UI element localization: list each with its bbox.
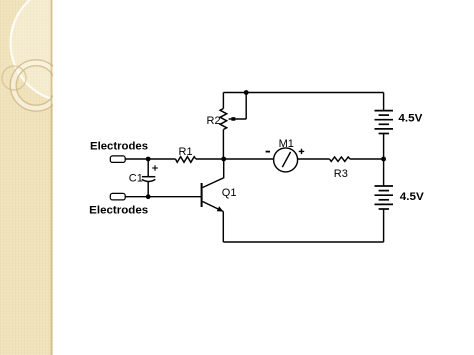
wire battery B2 down right rail	[383, 209, 385, 242]
resistor R3	[330, 157, 350, 162]
electrode terminal bottom	[110, 193, 125, 200]
wire meter M1 to R3	[298, 158, 330, 160]
svg-text:4.5V: 4.5V	[398, 112, 423, 124]
svg-text:Q1: Q1	[222, 187, 237, 199]
svg-text:Electrodes: Electrodes	[90, 141, 148, 153]
battery B1 4.5V	[375, 111, 394, 134]
wire node C to battery B2	[383, 159, 385, 186]
node A	[146, 157, 151, 162]
node D (wiper tap on top rail)	[244, 90, 249, 95]
svg-text:R1: R1	[179, 146, 193, 158]
wire bottom electrode to node E	[125, 196, 148, 198]
wire top rail down to R2	[222, 93, 224, 109]
resistor R1	[176, 157, 196, 163]
wire top electrode to node A	[125, 158, 148, 160]
wire bottom rail	[223, 241, 383, 243]
electrode terminal top	[110, 156, 125, 163]
meter M1	[266, 148, 305, 172]
svg-text:C1: C1	[129, 173, 143, 185]
node C (between batteries)	[381, 157, 386, 162]
battery B2 4.5V	[375, 186, 394, 209]
wire node B to meter M1	[224, 158, 274, 160]
capacitor C1	[142, 159, 158, 197]
svg-text:R2: R2	[207, 115, 221, 127]
wire emitter vertical	[222, 212, 224, 243]
svg-text:4.5V: 4.5V	[400, 191, 425, 203]
transistor Q1	[202, 159, 224, 212]
svg-text:M1: M1	[279, 138, 294, 150]
wire node C right rail from top	[383, 93, 385, 111]
svg-text:R3: R3	[334, 168, 348, 180]
node E	[146, 194, 151, 199]
wire R3 to node C	[350, 158, 384, 160]
wire top rail	[223, 92, 383, 94]
potentiometer R2	[220, 109, 246, 130]
wire node E to Q1 base	[148, 196, 201, 198]
svg-text:Electrodes: Electrodes	[89, 204, 148, 216]
wire node A to R1	[148, 158, 175, 160]
wire wiper up to node D	[245, 93, 247, 120]
wire R1 to node B	[196, 158, 224, 160]
node B	[221, 157, 226, 162]
wire R2 bottom to node B	[222, 130, 224, 160]
wire battery B1 to node C	[383, 134, 385, 160]
